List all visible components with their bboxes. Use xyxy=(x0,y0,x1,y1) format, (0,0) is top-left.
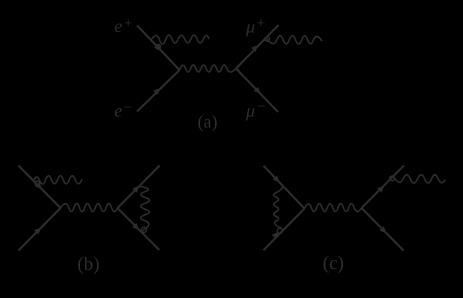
curl at loop lower attachment (c) xyxy=(277,228,282,233)
arrowhead on e+ line (a) xyxy=(154,43,161,50)
photon propagator (c) between vertices xyxy=(305,204,362,212)
wire outgoing bottom-right line (b) xyxy=(118,208,160,250)
arrowhead on e- line (a) xyxy=(153,88,160,95)
wire mu- outgoing line (a) xyxy=(236,69,278,113)
arrowhead on mu+ line (a) xyxy=(251,45,258,52)
wire incoming top-left line (c) xyxy=(264,166,305,209)
wire incoming bottom-left line (c) xyxy=(263,209,304,251)
curl at photon attachment (c) xyxy=(390,176,395,181)
curl at photon attachment (b) xyxy=(35,181,40,186)
svg-text:+: + xyxy=(257,15,266,32)
radiated photon from top-right line (c) xyxy=(393,175,446,183)
svg-text:+: + xyxy=(124,17,132,32)
svg-text:(b): (b) xyxy=(77,254,99,275)
arrowhead on mu- line (a) xyxy=(254,87,261,94)
svg-text:−: − xyxy=(257,99,265,115)
wire outgoing top-right line (b) xyxy=(118,166,160,209)
wire mu+ outgoing line (a) xyxy=(236,25,279,69)
svg-text:−: − xyxy=(124,100,132,116)
arrowhead on bottom-left line (c) xyxy=(272,232,279,239)
curl at mu+ photon attachment (a) xyxy=(265,37,270,42)
wire incoming bottom-left line (b) xyxy=(19,208,61,251)
wire outgoing top-right line (c) xyxy=(362,166,405,209)
wire outgoing bottom-right line (c) xyxy=(362,208,404,251)
wire e- incoming line (a) xyxy=(137,70,180,112)
arrowhead on bottom-right line (c) xyxy=(380,226,387,233)
svg-text:(c): (c) xyxy=(323,253,344,274)
radiated photon from mu+ line (a) xyxy=(267,36,323,44)
arrowhead on bottom-left line (b) xyxy=(34,228,41,235)
radiated photon from top-left line (b) xyxy=(34,176,83,184)
svg-text:e: e xyxy=(114,16,122,36)
svg-text:(a): (a) xyxy=(198,112,218,132)
wire e+ incoming line (a) xyxy=(137,25,180,70)
photon propagator (b) between vertices xyxy=(61,204,118,212)
arrowhead on bottom-right line (b) xyxy=(132,223,139,230)
svg-text:μ: μ xyxy=(245,101,255,121)
radiated photon from e+ line (a) xyxy=(151,35,209,44)
curl at loop lower attachment (b) xyxy=(141,227,146,232)
svg-text:μ: μ xyxy=(245,17,255,37)
curl at e+ photon attachment (a) xyxy=(156,45,161,50)
photon propagator (a) between vertices xyxy=(180,65,237,72)
vertex-correction photon loop (b) xyxy=(140,187,149,231)
arrowhead on top-right line (b) xyxy=(133,186,140,193)
vertex-correction photon loop (c) xyxy=(274,186,283,228)
arrowhead on top-right line (c) xyxy=(377,186,384,193)
arrowhead on top-left line (c) xyxy=(273,176,280,183)
wire incoming top-left line (b) xyxy=(18,166,60,209)
arrowhead on top-left line (b) xyxy=(35,182,42,189)
svg-text:e: e xyxy=(114,101,122,121)
